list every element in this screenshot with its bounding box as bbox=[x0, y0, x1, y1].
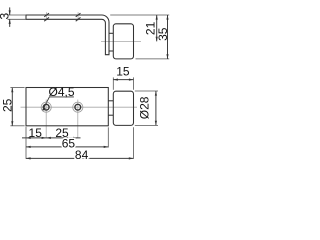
svg-text:25: 25 bbox=[0, 98, 14, 112]
svg-text:65: 65 bbox=[62, 136, 76, 150]
svg-text:Ø28: Ø28 bbox=[138, 96, 152, 119]
svg-text:35: 35 bbox=[156, 27, 170, 41]
svg-text:15: 15 bbox=[116, 65, 130, 79]
svg-text:15: 15 bbox=[29, 126, 43, 140]
svg-text:3: 3 bbox=[0, 13, 12, 20]
svg-text:84: 84 bbox=[75, 148, 89, 162]
svg-text:Ø4,5: Ø4,5 bbox=[48, 85, 74, 99]
